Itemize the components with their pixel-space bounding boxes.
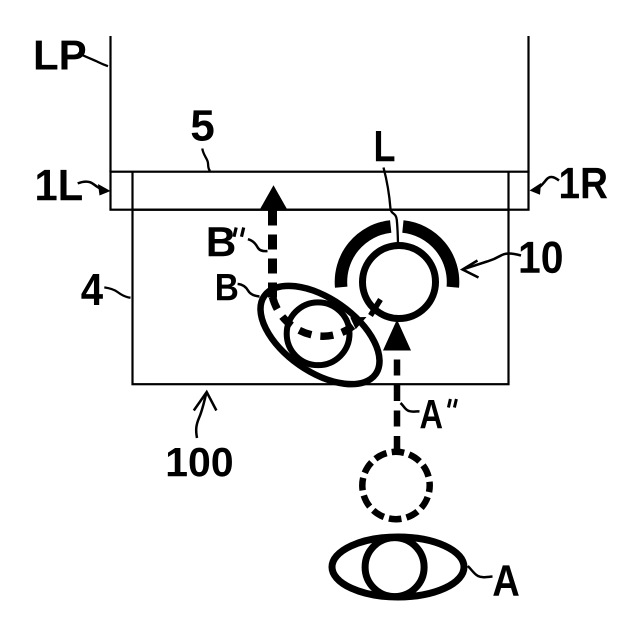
movement arrow A arrowhead [383,320,411,351]
movement arrow B dashed line [268,211,277,301]
person A eye ellipse [332,537,464,597]
label 100 [168,448,232,477]
person A head circle [365,538,424,597]
leader B double-prime [248,239,268,251]
label B [217,274,237,300]
tick on lamp circle [371,300,381,316]
gaze path B arrowhead [350,317,366,329]
arc 10 right part [403,227,453,288]
label B double-prime [209,227,235,256]
person B ellipse [243,266,396,404]
label LP [36,41,85,70]
leader 5 [202,149,210,172]
leader B [238,284,260,297]
label 5 [192,110,214,141]
leader A double-prime [401,403,420,412]
movement arrow B arrowhead [260,185,288,210]
label A [493,565,519,595]
label L [376,131,394,161]
bar divider left 1L [131,172,133,210]
leader 100 with open arrowhead [196,393,206,438]
leader A [468,566,493,577]
leader 1R with arrowhead [538,177,560,189]
label A double-prime [420,400,442,428]
movement arrow A dashed line [394,343,401,452]
leader 1L with arrowhead [78,182,101,189]
label 4 [81,274,102,305]
bar 5 outline [111,172,529,210]
leader 4 [104,287,130,297]
lamp circle L [363,246,436,319]
arc 10 left part [341,227,391,288]
leader L [384,168,399,245]
label 10 [521,241,562,273]
leader LP [78,53,108,66]
person B head circle [287,302,350,365]
label 1R [561,168,607,198]
label 1L [37,170,82,200]
leader 10 with open arrowhead [464,253,522,269]
bar divider right 1R [507,172,509,210]
gaze path B dashed curve [273,297,354,336]
housing rectangle 100 [133,210,509,385]
wall line right [527,36,529,172]
wall line left LP [109,36,111,172]
person A dashed circle [362,452,429,519]
